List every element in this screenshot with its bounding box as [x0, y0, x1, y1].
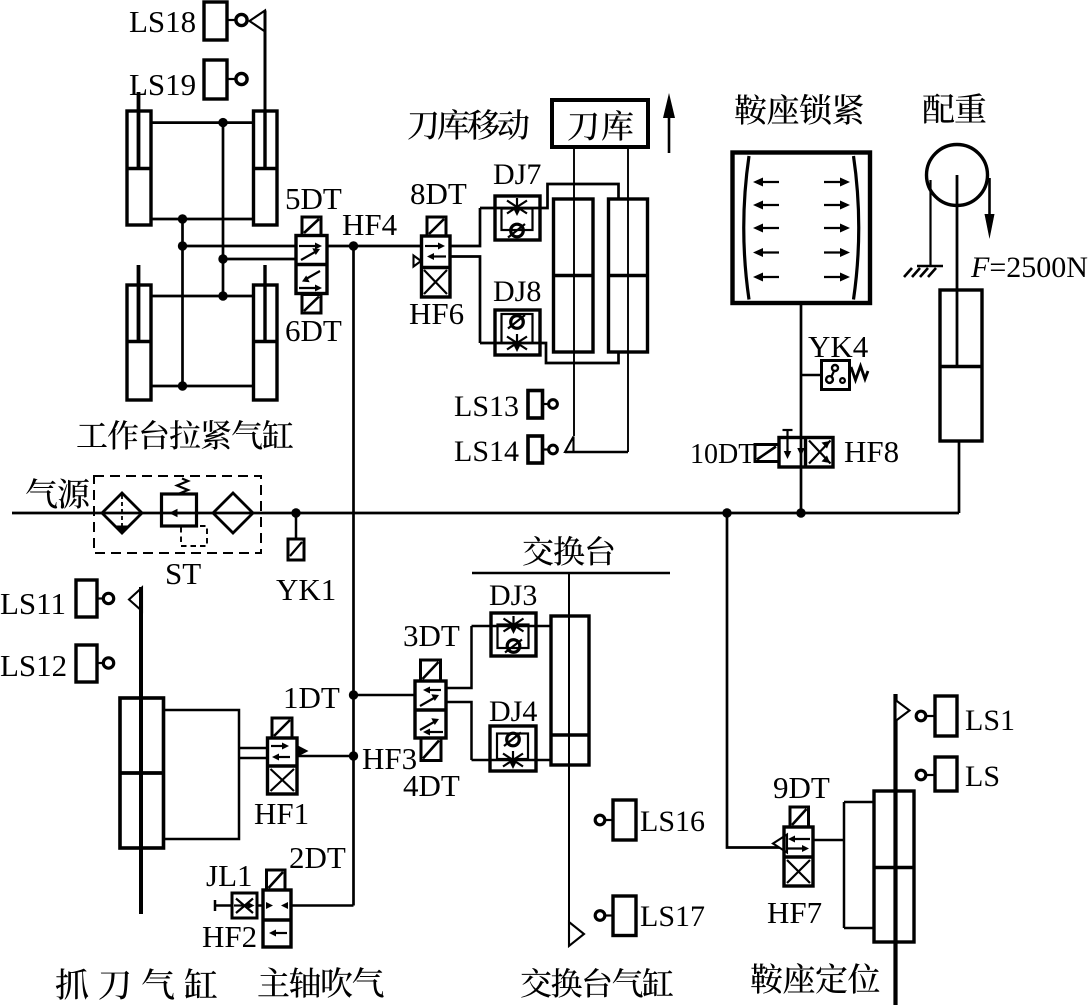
exhaust triangle HF7	[773, 835, 787, 853]
piston rod 交换台	[568, 573, 570, 922]
limit switch LS19	[204, 60, 247, 99]
label 刀库	[568, 110, 633, 141]
wire through DJ4	[472, 759, 552, 762]
brake arrows right	[824, 182, 845, 277]
svg-text:HF6: HF6	[409, 296, 464, 331]
solenoid HF1	[272, 718, 292, 738]
limit switch LS11	[76, 580, 114, 617]
label 交换台	[523, 536, 613, 566]
roller lever LS18	[250, 11, 266, 32]
tool magazine box	[552, 100, 648, 147]
cylinder 抓刀气缸	[120, 698, 164, 848]
node YK1	[291, 508, 300, 517]
node B3	[178, 381, 187, 390]
svg-text:LS16: LS16	[640, 805, 705, 838]
brake arrows left	[758, 182, 779, 277]
roller lever LS11	[129, 588, 142, 612]
wire pair1 top ports	[151, 121, 254, 124]
node A2	[218, 254, 227, 263]
valve HF8	[779, 430, 833, 467]
svg-text:LS11: LS11	[0, 586, 66, 621]
node 1DT	[349, 690, 358, 699]
svg-text:LS12: LS12	[0, 648, 67, 683]
svg-text:HF8: HF8	[844, 434, 899, 469]
throttle JL1	[232, 893, 257, 918]
wire to HF4 port B	[223, 258, 296, 261]
solenoid 6DT	[302, 295, 321, 314]
regulator	[162, 479, 208, 547]
limit switch LS18	[204, 2, 247, 40]
throttle check valve DJ3	[491, 613, 536, 656]
svg-text:ST: ST	[165, 556, 201, 591]
cylinder pair2 left	[127, 265, 151, 400]
piston rod 刀库 left	[573, 147, 575, 436]
solenoid 4DT	[421, 738, 441, 761]
svg-text:HF7: HF7	[767, 895, 822, 930]
svg-text:DJ4: DJ4	[489, 695, 537, 728]
wire HF3 to DJ3	[446, 626, 472, 688]
wire HF7 to cylinder loop	[813, 802, 874, 928]
label 主轴吹气	[258, 967, 383, 998]
wire HF4 output	[327, 245, 354, 248]
piston rod 刀库 right	[627, 147, 629, 452]
brake shoe left	[744, 156, 749, 300]
svg-text:4DT: 4DT	[403, 768, 460, 803]
cylinder 刀库 right	[609, 199, 648, 352]
node A1	[218, 118, 227, 127]
solenoid 9DT	[790, 807, 809, 827]
label 鞍座定位	[751, 963, 879, 994]
valve HF3	[415, 681, 446, 738]
label 交换台气缸	[521, 968, 673, 998]
svg-text:LS19: LS19	[129, 67, 196, 102]
wire pair1 bottom ports	[151, 218, 254, 221]
wire to HF4 port A	[183, 245, 297, 248]
wire to YK4	[801, 374, 822, 377]
node B2	[178, 241, 187, 250]
svg-text:5DT: 5DT	[285, 181, 342, 216]
svg-text:LS: LS	[965, 760, 1000, 793]
lubricator	[213, 493, 253, 533]
node HF7 branch	[722, 508, 731, 517]
svg-text:HF4: HF4	[342, 207, 398, 242]
node HF4	[349, 241, 358, 250]
wire main to HF6	[354, 245, 422, 248]
cylinder pair1 right	[254, 111, 278, 225]
svg-text:6DT: 6DT	[285, 313, 342, 348]
solenoid 8DT	[427, 217, 446, 236]
wire through DJ7 to cylinder	[480, 184, 619, 208]
cylinder 配重	[940, 290, 982, 441]
wire HF3 to DJ4	[446, 702, 472, 760]
limit switch LS12	[76, 645, 114, 682]
svg-text:LS1: LS1	[965, 704, 1015, 737]
cylinder pair1 left	[127, 92, 151, 225]
valve HF6	[422, 236, 451, 297]
wire main to HF7	[727, 513, 784, 848]
rope to anchor	[929, 180, 931, 266]
label 抓刀气缸	[56, 968, 217, 1000]
limit switch LS16	[595, 800, 636, 840]
svg-text:8DT: 8DT	[410, 176, 467, 211]
wire through DJ3	[472, 625, 552, 628]
piston rod pair1 right	[264, 11, 267, 112]
label 鞍座锁紧	[735, 94, 863, 125]
cam wedge 交换台	[569, 922, 584, 946]
pressure switch YK1	[288, 513, 304, 560]
svg-text:2DT: 2DT	[289, 840, 346, 875]
svg-text:LS17: LS17	[640, 900, 705, 933]
label 刀库移动	[408, 109, 529, 140]
limit switch LS13	[528, 391, 557, 419]
filter	[102, 493, 142, 534]
limit switch LS17	[595, 896, 636, 936]
up arrow	[663, 93, 675, 153]
svg-text:LS14: LS14	[454, 435, 519, 468]
node B1	[178, 214, 187, 223]
label 配重	[923, 93, 986, 123]
limit switch LS	[916, 757, 957, 791]
cylinder 刀库 left	[554, 199, 594, 352]
wire through DJ8 to cylinder	[480, 343, 619, 363]
wire HF2 to riser	[291, 904, 354, 907]
wire HF1 to node	[297, 755, 354, 758]
piston rod 抓刀	[139, 587, 143, 914]
force arrow	[985, 178, 995, 239]
wire riser x223	[222, 123, 225, 296]
wire cylinder ports to HF1	[164, 710, 240, 839]
svg-text:JL1: JL1	[206, 858, 253, 893]
exhaust triangle HF6	[414, 256, 422, 267]
brake housing	[733, 153, 871, 304]
svg-text:YK4: YK4	[808, 329, 869, 364]
pressure switch YK4	[822, 361, 869, 390]
svg-text:3DT: 3DT	[403, 618, 460, 653]
wire pair2 bottom ports	[151, 385, 254, 388]
wire pair2 top ports	[151, 295, 254, 298]
svg-text:DJ3: DJ3	[489, 579, 537, 612]
svg-text:1DT: 1DT	[283, 680, 340, 715]
valve HF7	[784, 827, 813, 886]
node A3	[218, 291, 227, 300]
svg-text:10DT: 10DT	[690, 439, 755, 470]
solenoid 10DT	[755, 445, 779, 462]
piston rod 鞍座定位	[893, 694, 897, 1005]
cylinder 鞍座定位	[874, 791, 914, 942]
solenoid 5DT	[302, 217, 321, 236]
pulley	[927, 145, 988, 206]
wire brake to HF8	[800, 303, 803, 513]
svg-text:YK1: YK1	[276, 572, 336, 607]
svg-text:HF2: HF2	[202, 919, 257, 954]
throttle check valve DJ4	[490, 726, 536, 771]
svg-text:DJ8: DJ8	[493, 275, 541, 308]
main air line	[12, 512, 959, 515]
roller lever LS1	[896, 700, 910, 721]
svg-text:LS18: LS18	[129, 4, 196, 39]
platform line 交换台	[472, 572, 670, 575]
wire riser x182	[181, 219, 184, 386]
cam wedge	[565, 437, 574, 453]
solenoid 3DT	[421, 660, 441, 681]
svg-text:9DT: 9DT	[773, 770, 830, 805]
label 工作台拉紧气缸	[77, 420, 293, 450]
wire HF6 to DJ7	[450, 208, 480, 246]
cylinder pair2 right	[254, 265, 278, 400]
throttle check valve DJ7	[495, 196, 540, 240]
wire node to HF3	[354, 694, 416, 697]
wire to HF1 port A	[239, 747, 268, 750]
wire wedge bar	[565, 451, 628, 454]
air service unit ST dashed box	[94, 476, 261, 553]
wire cylinder to main	[958, 441, 961, 513]
svg-text:HF1: HF1	[254, 796, 309, 831]
rope to cylinder	[956, 175, 959, 366]
wire HF6 to DJ8	[450, 257, 480, 344]
solenoid 2DT	[267, 870, 286, 890]
wire riser x353	[352, 246, 355, 906]
svg-text:DJ7: DJ7	[493, 158, 541, 191]
valve HF1	[268, 738, 298, 794]
brake shoe right	[854, 156, 859, 300]
svg-text:F=2500N: F=2500N	[970, 251, 1088, 284]
flow arrowhead HF1 out	[296, 745, 309, 758]
wire to HF1 port B	[239, 757, 268, 760]
node HF3 feed	[349, 751, 358, 760]
throttle check valve DJ8	[495, 310, 540, 355]
cylinder 交换台气缸	[551, 616, 589, 765]
limit switch LS1	[916, 696, 957, 736]
label 气源	[26, 478, 89, 509]
limit switch LS14	[528, 436, 557, 463]
wire JL1 to HF2	[257, 904, 263, 907]
valve HF2	[263, 890, 291, 947]
valve HF4	[296, 236, 327, 294]
node HF8 branch	[796, 508, 805, 517]
svg-text:LS13: LS13	[454, 390, 519, 423]
anchor ground	[904, 266, 943, 277]
muffler port JL1	[215, 900, 232, 911]
